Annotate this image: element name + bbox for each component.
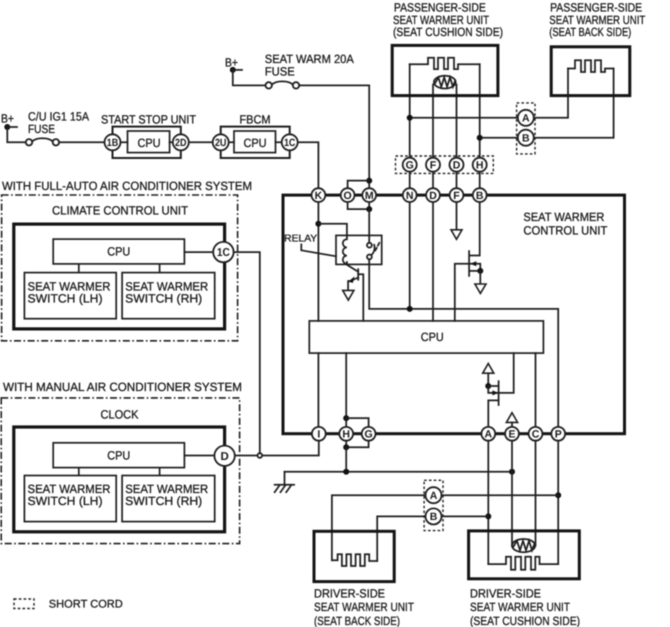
MOSFET Q3 channel bar: [498, 381, 500, 405]
pin D (clock): [214, 446, 234, 466]
short cord connector box (driver): [424, 480, 443, 530]
svg-text:SEAT WARMER UNIT: SEAT WARMER UNIT: [314, 600, 415, 614]
clock box: [14, 427, 225, 532]
wire climate 1C down: [234, 252, 260, 453]
svg-text:FUSE: FUSE: [28, 122, 55, 136]
bus pin E: [505, 427, 519, 441]
svg-text:SWITCH (RH): SWITCH (RH): [125, 291, 202, 305]
wire P line down to driver cushion heater: [557, 441, 559, 564]
wire clock CPU to D: [184, 455, 214, 457]
heater element driver back (teeth down): [332, 554, 377, 566]
ground arrow under Q1: [343, 290, 354, 300]
svg-text:DRIVER-SIDE: DRIVER-SIDE: [470, 586, 541, 600]
cpu legs (climate): [79, 264, 160, 273]
bus pin P: [551, 427, 565, 441]
wire arrow to Q3: [487, 373, 489, 386]
passenger back heater leads inside box: [567, 69, 569, 96]
connecting stubs start/fbcm: [121, 141, 282, 143]
node junction below M: [366, 206, 372, 212]
svg-text:1B: 1B: [107, 137, 119, 149]
node junction A row: [407, 115, 413, 121]
svg-text:G: G: [365, 429, 373, 441]
short cord legend box: [14, 599, 34, 609]
wire bracket H-G bottom: [346, 441, 368, 448]
svg-text:FUSE: FUSE: [265, 65, 295, 79]
svg-text:N: N: [406, 190, 414, 202]
connector pin H: [473, 158, 487, 172]
wire 1C(FBCM) to node K: [298, 142, 319, 188]
svg-text:(SEAT CUSHION SIDE): (SEAT CUSHION SIDE): [393, 25, 503, 39]
wire H to ground and to E junction: [345, 447, 347, 472]
seat warmer switch LH box (clock): [24, 476, 116, 522]
MOSFET Q3 gate lead from CPU: [499, 353, 514, 393]
short cord pin B (passenger): [518, 130, 534, 146]
wire driver short-cord B right to A line: [442, 515, 489, 517]
connector pin F: [426, 158, 440, 172]
svg-text:B: B: [430, 511, 438, 523]
svg-text:(SEAT BACK SIDE): (SEAT BACK SIDE): [314, 614, 400, 627]
node junction B row: [477, 135, 483, 141]
bus pin N: [403, 188, 417, 202]
passenger cushion seat warmer unit box: [392, 45, 498, 95]
svg-text:B: B: [476, 190, 484, 202]
short cord connector box (passenger): [517, 103, 535, 154]
svg-text:SEAT WARMER: SEAT WARMER: [523, 210, 604, 224]
relay K1 mechanical link (dashed): [375, 242, 380, 251]
MOSFET Q2 drain from B: [470, 202, 480, 256]
wire 2D to 2U: [189, 141, 213, 143]
wire bracket H-G top: [346, 418, 368, 427]
MOSFET Q3 middle contact with arrow: [488, 386, 497, 393]
pin 1C (climate): [213, 242, 233, 262]
bus pin G: [362, 427, 376, 441]
MOSFET Q2 middle contact with arrow: [470, 264, 480, 271]
wire K down to CPU: [317, 202, 319, 321]
node junction P line / short cord A: [555, 492, 561, 498]
battery B+ node (left): [4, 124, 10, 130]
node junction on K line: [315, 221, 321, 227]
svg-text:CPU: CPU: [244, 136, 267, 150]
node junction A line / short cord B: [485, 513, 491, 519]
svg-text:M: M: [365, 190, 374, 202]
chassis ground G1: [275, 484, 294, 486]
fuse F2 SEAT WARM 20A: [266, 82, 272, 88]
wire climate CPU to 1C: [184, 251, 213, 253]
svg-text:C: C: [532, 429, 540, 441]
manual air conditioner dashed box: [1, 398, 239, 544]
connector pin D: [450, 158, 464, 172]
svg-text:WITH FULL-AUTO AIR CONDITIONE: WITH FULL-AUTO AIR CONDITIONER SYSTEM: [2, 179, 252, 193]
passenger cushion heater left lead to G: [409, 64, 411, 158]
start stop unit box: [113, 127, 181, 158]
bus pin D: [426, 188, 440, 202]
svg-text:SHORT CORD: SHORT CORD: [49, 598, 123, 610]
wire E line down to thermistor: [511, 441, 513, 546]
transistor Q1 collector from coil: [347, 262, 358, 271]
wire driver short-cord A left to back heater: [332, 495, 426, 560]
battery B+ node (middle): [230, 67, 236, 73]
svg-text:B: B: [522, 133, 530, 145]
svg-text:B+: B+: [1, 112, 14, 126]
wire M to relay contact: [368, 209, 370, 243]
driver back seat warmer unit box: [314, 531, 394, 581]
wire driver short-cord B left to back heater: [377, 516, 425, 561]
wire: [59, 141, 104, 143]
svg-text:WITH MANUAL AIR CONDITIONER SY: WITH MANUAL AIR CONDITIONER SYSTEM: [3, 380, 242, 394]
svg-text:K: K: [315, 190, 323, 202]
node junction Q2 source: [477, 268, 483, 274]
relay K1 contact circles: [367, 243, 372, 248]
seat warmer control unit box: [283, 195, 625, 434]
svg-text:RELAY: RELAY: [284, 234, 317, 245]
wire: [7, 126, 17, 128]
wire B to passenger back heater right: [534, 96, 614, 138]
wire C to CPU: [535, 353, 537, 427]
wire to ground arrow: [479, 271, 481, 283]
bus pin K: [312, 188, 326, 202]
cpu box (clock): [53, 443, 184, 468]
node junction H-ground: [343, 469, 349, 475]
MOSFET Q2 gate lead to CPU: [455, 264, 469, 321]
svg-text:H: H: [342, 429, 350, 441]
wire F line to ground arrow: [456, 202, 458, 229]
climate control unit box: [14, 224, 225, 329]
svg-text:1C: 1C: [217, 247, 230, 259]
svg-text:SEAT WARMER UNIT: SEAT WARMER UNIT: [470, 600, 571, 614]
fuse F1 C/U IG1 15A: [26, 139, 32, 145]
short cord pin B (driver): [426, 508, 442, 524]
svg-text:F: F: [453, 190, 460, 202]
pin 2D: [173, 134, 189, 150]
driver cushion seat warmer unit box: [469, 531, 580, 579]
svg-text:B+: B+: [225, 56, 238, 70]
node junction above O/M: [366, 178, 372, 184]
relay K1 coil: [343, 235, 347, 264]
short cord pin A (passenger): [518, 110, 534, 126]
wire C line down to thermistor: [535, 441, 537, 546]
wire short-cord A to heater branch: [412, 117, 517, 119]
MOSFET Q3 top contact: [488, 385, 497, 387]
heater element driver cushion: [488, 557, 558, 570]
svg-text:DRIVER-SIDE: DRIVER-SIDE: [314, 586, 385, 600]
MOSFET Q2 source contact: [470, 270, 480, 272]
ground arrow under F: [451, 230, 462, 240]
emitter arrowhead: [348, 276, 354, 283]
MOSFET Q2 channel bar: [468, 251, 470, 276]
node junction below H: [343, 444, 349, 450]
node junction N to relay line: [407, 306, 413, 312]
seat warmer switch RH box (clock): [122, 476, 215, 522]
transistor Q1 emitter: [348, 278, 358, 290]
up arrow (B+) above E: [506, 413, 517, 423]
wire to chassis ground: [284, 472, 286, 485]
RELAY leader line: [301, 245, 336, 257]
wire A line down to driver cushion heater: [487, 441, 489, 564]
wire: [7, 127, 26, 142]
svg-text:START STOP UNIT: START STOP UNIT: [101, 112, 197, 126]
bus pin B: [473, 188, 487, 202]
cpu box (climate): [53, 239, 184, 264]
CPU box (seat warmer control unit): [309, 321, 543, 353]
svg-text:SWITCH (LH): SWITCH (LH): [28, 291, 103, 305]
bus pin C: [529, 427, 543, 441]
pin 2U: [213, 134, 229, 150]
svg-text:A: A: [430, 490, 438, 502]
full-auto air conditioner dashed box: [2, 195, 238, 341]
svg-text:F: F: [430, 160, 437, 172]
svg-text:CPU: CPU: [107, 448, 130, 462]
bus pin H: [339, 427, 353, 441]
svg-text:D: D: [220, 451, 228, 463]
transistor Q1 base lead to CPU: [358, 274, 363, 321]
svg-text:A: A: [522, 113, 530, 125]
cpu box (FBCM): [234, 131, 276, 153]
MOSFET Q3 source contact to A: [488, 400, 497, 427]
wire N line down: [409, 202, 411, 309]
svg-text:G: G: [406, 160, 414, 172]
connector G F D H dashed box: [396, 156, 494, 173]
svg-text:FBCM: FBCM: [240, 112, 271, 126]
pin 1B: [105, 134, 121, 150]
svg-text:2U: 2U: [215, 137, 227, 149]
transistor Q1 base bar: [357, 269, 359, 280]
heater element passenger cushion: [410, 58, 480, 69]
relay contact output line to P: [369, 259, 558, 427]
wire E to arrow: [511, 423, 513, 427]
svg-text:D: D: [429, 190, 437, 202]
wire I down to clock D wire: [235, 441, 319, 456]
cpu box (start stop unit): [128, 131, 170, 153]
passenger cushion heater right lead to H: [479, 64, 481, 158]
CPU stubs down: I, H/G, gate Q3, C: [317, 353, 319, 427]
bus pin F: [450, 188, 464, 202]
svg-text:CPU: CPU: [107, 245, 130, 259]
wire A to passenger back heater left: [534, 96, 568, 118]
bus pin O: [341, 188, 355, 202]
wire fuse to node M: [299, 85, 369, 188]
cpu legs (clock): [79, 468, 160, 476]
seat warmer switch RH box (climate): [122, 273, 215, 319]
svg-text:D: D: [453, 160, 461, 172]
wire: [233, 69, 242, 71]
passenger back seat warmer unit box: [551, 47, 630, 96]
wire bracket O-M top: [348, 181, 370, 189]
svg-text:(SEAT BACK SIDE): (SEAT BACK SIDE): [549, 25, 631, 39]
svg-text:SWITCH (RH): SWITCH (RH): [125, 494, 202, 508]
thermistor passenger cushion: [434, 76, 456, 89]
node junction Q3: [485, 383, 491, 389]
wires G/F/D/H to bus: [409, 172, 411, 189]
bus pin M: [362, 188, 376, 202]
svg-text:CPU: CPU: [421, 330, 444, 344]
svg-text:CPU: CPU: [138, 136, 161, 150]
relay K1 contact arm: [371, 245, 374, 255]
svg-text:2D: 2D: [175, 137, 187, 149]
ground arrow under Q2: [475, 284, 486, 293]
FBCM box: [221, 127, 290, 158]
open junction circle (connector): [258, 453, 263, 458]
svg-text:A: A: [485, 429, 493, 441]
thermistor driver cushion: [512, 539, 535, 552]
thermistor leads to F and D: [432, 85, 434, 158]
svg-text:I: I: [317, 429, 320, 441]
svg-text:H: H: [476, 160, 484, 172]
wire short-cord B to heater branch: [482, 137, 517, 139]
svg-text:CLOCK: CLOCK: [101, 407, 139, 421]
bus pin I: [312, 427, 326, 441]
wire: [233, 70, 266, 86]
svg-text:1C: 1C: [284, 137, 296, 149]
pin 1C (FBCM): [282, 134, 298, 150]
short cord pin A (driver): [426, 487, 442, 503]
svg-text:SWITCH (LH): SWITCH (LH): [28, 494, 103, 508]
svg-text:O: O: [344, 190, 352, 202]
svg-text:(SEAT CUSHION SIDE): (SEAT CUSHION SIDE): [470, 614, 580, 627]
up arrow (B+) above Q3: [483, 364, 494, 374]
node junction on E line: [509, 469, 515, 475]
wire D line down to CPU: [432, 202, 434, 321]
wire driver short-cord A right to P line: [442, 494, 559, 496]
seat warmer switch LH box (climate): [24, 273, 116, 319]
svg-text:E: E: [508, 429, 515, 441]
wire K branch to relay coil: [318, 224, 347, 236]
connector pin G: [403, 158, 417, 172]
svg-text:CONTROL UNIT: CONTROL UNIT: [523, 224, 608, 238]
svg-text:CLIMATE CONTROL UNIT: CLIMATE CONTROL UNIT: [52, 204, 189, 218]
wire bracket O-M bottom: [348, 202, 370, 209]
relay K1 box: [336, 235, 382, 264]
bus pin A: [481, 427, 495, 441]
node junction above H: [343, 415, 349, 421]
heater element passenger back: [568, 60, 614, 72]
svg-text:P: P: [555, 429, 562, 441]
